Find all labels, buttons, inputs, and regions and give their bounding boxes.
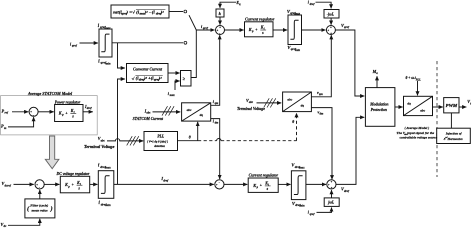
three-phase slashes (terminal voltage) <box>264 98 276 107</box>
label i_abc <box>144 108 152 114</box>
wire: P_ref into summing junction P <box>12 111 28 113</box>
svg-text:Modulation: Modulation <box>369 102 388 106</box>
wire: i_dref branch up into converter-current block <box>118 79 125 184</box>
label v_abc (PLL input) <box>98 136 106 142</box>
summing junction DC <box>35 180 44 190</box>
wire: limiter output to switch bottom contact <box>112 42 183 44</box>
label i_dm <box>213 119 219 125</box>
block: saturation limit formula <box>111 5 169 18</box>
label v_dm <box>318 110 324 116</box>
svg-text:dref: dref <box>344 189 350 193</box>
wire: angle into dq-abc transform <box>417 81 419 96</box>
limiter I_dref <box>98 171 114 199</box>
DC voltage regulator PI block <box>60 176 89 193</box>
summing junction 1 (q axis) <box>216 26 225 36</box>
svg-text:Harmonics: Harmonics <box>447 137 464 141</box>
label i_qref input <box>70 41 78 47</box>
wire: V_dc into filter <box>8 219 40 226</box>
label v_abc (terminal voltage input) <box>246 98 254 104</box>
svg-text:)² −(i: )² −(i <box>143 10 155 14</box>
svg-text:Injection of: Injection of <box>445 131 463 135</box>
svg-text:abc: abc <box>249 100 254 104</box>
wire: formula output to switch top contact <box>169 11 183 13</box>
wire: saturation to d output summing junction <box>306 183 326 185</box>
svg-text:dc: dc <box>4 224 8 228</box>
caption: average model note <box>397 126 438 140</box>
abc to dq transform (statcom current) <box>182 103 211 121</box>
svg-text:-: - <box>219 32 220 35</box>
wire: v_dm feedforward down to d output summing junction <box>311 108 332 180</box>
svg-text:PWM: PWM <box>446 104 458 108</box>
svg-text:detection: detection <box>154 144 165 148</box>
d-axis current regulator PI block <box>248 178 278 192</box>
label i_qm <box>213 99 219 105</box>
wire: dq-abc transform to PWM <box>433 106 443 108</box>
wire: DC summing junction to DC voltage regulator <box>44 183 59 185</box>
big gray block arrow <box>45 136 59 169</box>
label v_qm <box>317 90 323 96</box>
wire: i_abc into abc-dq transform <box>153 111 181 113</box>
svg-text:abc: abc <box>146 111 151 115</box>
svg-text:t: t <box>470 101 471 105</box>
label E_q <box>235 0 241 6</box>
label i_qref_min <box>98 59 111 65</box>
switch bottom contact <box>184 41 187 44</box>
svg-text:Terminal Voltage: Terminal Voltage <box>84 145 115 149</box>
label V_dcref <box>2 181 12 187</box>
wire: regulator to saturation <box>273 29 287 31</box>
svg-text:dq: dq <box>301 104 305 108</box>
PWM block <box>444 98 459 113</box>
svg-text:dref: dref <box>87 106 93 110</box>
wire: saturation to summing junction 2 <box>302 29 326 31</box>
saturation V_qref <box>288 15 302 45</box>
wire: regulator to saturation (d) <box>278 183 290 185</box>
svg-text:dcref: dcref <box>5 183 12 187</box>
svg-text:max: max <box>105 26 111 30</box>
wire: -jwL to summing junction 2 <box>330 18 332 25</box>
block: converter current magnitude <box>127 64 169 83</box>
wire: P_m feedback into summing junction P <box>8 117 34 127</box>
svg-text:min: min <box>295 48 300 52</box>
wire: V_qref to modulation block <box>335 30 364 96</box>
svg-text:Power regulator: Power regulator <box>55 100 81 104</box>
label V_qref_max <box>287 9 301 16</box>
wire: i_dm feedback down to d summing junction <box>211 119 220 179</box>
wire: comparator output up to switch pivot <box>191 30 196 78</box>
label theta + w.t PLL <box>406 76 422 81</box>
wire: v_abc into abc-dq transform (voltage) <box>257 102 282 104</box>
svg-text:dq: dq <box>200 113 204 117</box>
svg-text:Protection: Protection <box>371 108 387 112</box>
label P_ref <box>2 108 9 114</box>
svg-text:√: √ <box>132 76 135 81</box>
svg-text:ref: ref <box>5 111 9 115</box>
label m_a <box>372 69 379 75</box>
summing junction d output <box>327 180 336 190</box>
label V_dref_max <box>291 163 305 170</box>
summing junction d (current loop) <box>215 180 224 189</box>
svg-text:abc: abc <box>101 138 106 142</box>
label V_qref_min <box>287 45 300 52</box>
svg-text:abc: abc <box>287 98 292 102</box>
wire: droop gain to summing junction 1 <box>219 17 221 25</box>
svg-text:( V=1 dq θ [abc] ): ( V=1 dq θ [abc] ) <box>147 139 168 143</box>
svg-text:θ: θ <box>292 120 294 124</box>
summing junction 2 (q axis output) <box>326 26 335 36</box>
svg-text:input signal for the: input signal for the <box>407 131 434 135</box>
wire: branch down into converter-current block <box>118 43 125 68</box>
wire: i_max into comparator <box>175 81 180 90</box>
svg-text:Terminal Voltage: Terminal Voltage <box>237 107 265 111</box>
svg-text:max: max <box>299 166 305 170</box>
svg-text:)² +(i: )² +(i <box>143 76 155 80</box>
abc to dq transform (terminal voltage) <box>283 92 312 112</box>
group box: Average STATCOM Model <box>1 96 98 135</box>
svg-text:STATCOM Current: STATCOM Current <box>133 117 164 121</box>
q-axis current regulator PI block <box>245 22 274 37</box>
svg-text:max: max <box>295 12 301 16</box>
wire: I_dref output of power regulator <box>83 111 93 113</box>
svg-text:qref: qref <box>310 212 316 216</box>
svg-text:Converter Current: Converter Current <box>133 67 163 71</box>
three-phase slashes (statcom current) <box>162 106 174 115</box>
svg-text:-: - <box>33 114 34 117</box>
label i_qref_max <box>98 24 111 30</box>
saturation V_dref <box>291 171 306 200</box>
three-phase slashes (terminal voltage to PLL) <box>127 136 139 145</box>
wire: d summing junction to current regulator <box>224 183 247 185</box>
svg-text:Filter (cycle): Filter (cycle) <box>30 204 48 208</box>
wire: injection block to PWM <box>450 113 452 128</box>
switch top contact <box>184 10 187 13</box>
wire: converter current to comparator <box>168 72 180 74</box>
label v_t <box>467 99 471 105</box>
svg-text:a: a <box>376 71 378 75</box>
gain -jwL <box>324 10 339 19</box>
comparator block <box>181 71 192 87</box>
droop gain k <box>216 9 224 17</box>
svg-text:jωL: jωL <box>327 201 335 205</box>
switch arm <box>189 15 196 30</box>
svg-text:Current regulator: Current regulator <box>249 173 279 178</box>
dashed theta bus (with hop over i_dm feedback) <box>198 140 217 142</box>
svg-text:PLL: PLL <box>157 135 165 139</box>
svg-text:max: max <box>105 166 111 170</box>
svg-text:PLL: PLL <box>416 78 421 81</box>
wire: v_abc to PLL (with hop over i_dref branch) <box>107 139 143 141</box>
wire: DC regulator to limiter <box>90 183 98 185</box>
wire: v_qm feedforward up to summing junction 2 <box>311 35 331 97</box>
limiter I_qref <box>99 29 112 57</box>
dashed wire: theta up into abc-dq transform (voltage) <box>296 113 298 141</box>
svg-text:abc: abc <box>187 108 192 112</box>
svg-text:√: √ <box>132 10 135 15</box>
wire: i_qref into jwL gain <box>317 208 332 213</box>
wire: filter to DC summing junction <box>39 190 41 199</box>
svg-text:DC voltage regulator: DC voltage regulator <box>56 172 90 176</box>
wire: PLL theta output <box>178 140 199 142</box>
svg-text:-: - <box>39 187 40 190</box>
dq to abc transform <box>404 96 433 115</box>
label I_dref (power regulator output) <box>84 104 93 110</box>
svg-text:dm: dm <box>215 121 219 125</box>
injection of 3rd harmonics block <box>437 128 471 143</box>
wire: PWM output <box>459 106 466 108</box>
label I_dref (d axis line) <box>160 176 169 182</box>
svg-text:q: q <box>239 2 241 6</box>
svg-text:min: min <box>106 203 111 207</box>
label i_dref (cross coupling input) <box>308 0 316 6</box>
modulation and protection block <box>365 88 395 127</box>
filter block <box>25 199 55 218</box>
svg-text:qm: qm <box>215 101 219 105</box>
label P_m <box>1 124 7 130</box>
wire: summing junction P to power regulator <box>38 111 54 113</box>
svg-text:dm: dm <box>320 112 324 116</box>
wire: m_a output up <box>376 76 378 87</box>
label i_dref_max <box>98 164 111 170</box>
dashed model separator <box>436 61 438 177</box>
wire: V_dcref into DC summing junction <box>14 183 34 185</box>
wire: I_dref reference line to d summing junction <box>114 183 214 185</box>
svg-text:min: min <box>300 204 305 208</box>
wire: i_qm feedback up to summing junction 1 <box>211 35 220 105</box>
label V_dc <box>1 222 8 228</box>
wire: jwL to d output summing junction <box>331 190 333 198</box>
label i_dref_min <box>99 201 112 207</box>
svg-text:controllable voltage source: controllable voltage source <box>400 136 438 140</box>
svg-text:qm: qm <box>319 92 323 96</box>
gain jwL <box>324 198 339 207</box>
svg-text:abc: abc <box>420 108 425 112</box>
svg-text:Average STATCOM Model: Average STATCOM Model <box>27 91 73 96</box>
label i_qref (selected) <box>201 24 209 30</box>
wire: modulation block to dq-abc transform <box>395 106 403 108</box>
label V_dref <box>341 187 350 193</box>
svg-text:min: min <box>106 61 111 65</box>
svg-text:max: max <box>170 93 176 97</box>
svg-text:dref: dref <box>163 178 169 182</box>
power regulator PI block <box>55 105 83 122</box>
svg-text:-: - <box>219 181 220 184</box>
label i_qref (cross coupling, d axis) <box>308 210 316 216</box>
svg-text:dref: dref <box>310 2 316 6</box>
svg-text:θ: θ <box>189 135 191 139</box>
PLL block <box>144 132 178 151</box>
wire: i_qref input arrow <box>80 42 98 44</box>
svg-text:)²: )² <box>160 10 165 14</box>
summing junction P <box>29 107 38 117</box>
wire: switch output to summing junction 1 <box>196 29 214 31</box>
svg-text:mean value: mean value <box>32 209 49 213</box>
svg-text:qref: qref <box>72 44 78 48</box>
wire: i_dref into -jwL gain <box>316 2 332 8</box>
svg-text:qref: qref <box>344 25 350 29</box>
wire: summing junction 1 to current regulator <box>225 29 244 31</box>
svg-text:m: m <box>4 126 7 130</box>
wire: E_q into droop gain <box>220 2 236 8</box>
svg-text:( Average Model ): ( Average Model ) <box>405 126 430 130</box>
svg-text:): ) <box>50 205 53 212</box>
wire: theta into abc-dq transform (current) <box>197 122 199 141</box>
label V_dref_min <box>292 201 305 208</box>
svg-text:-jωL: -jωL <box>327 12 335 16</box>
label V_qref <box>341 23 350 29</box>
label i_max <box>168 91 175 97</box>
wire: V_dref to modulation block <box>336 117 364 184</box>
svg-text:dq: dq <box>407 102 411 106</box>
svg-text:Current regulator: Current regulator <box>245 16 275 21</box>
